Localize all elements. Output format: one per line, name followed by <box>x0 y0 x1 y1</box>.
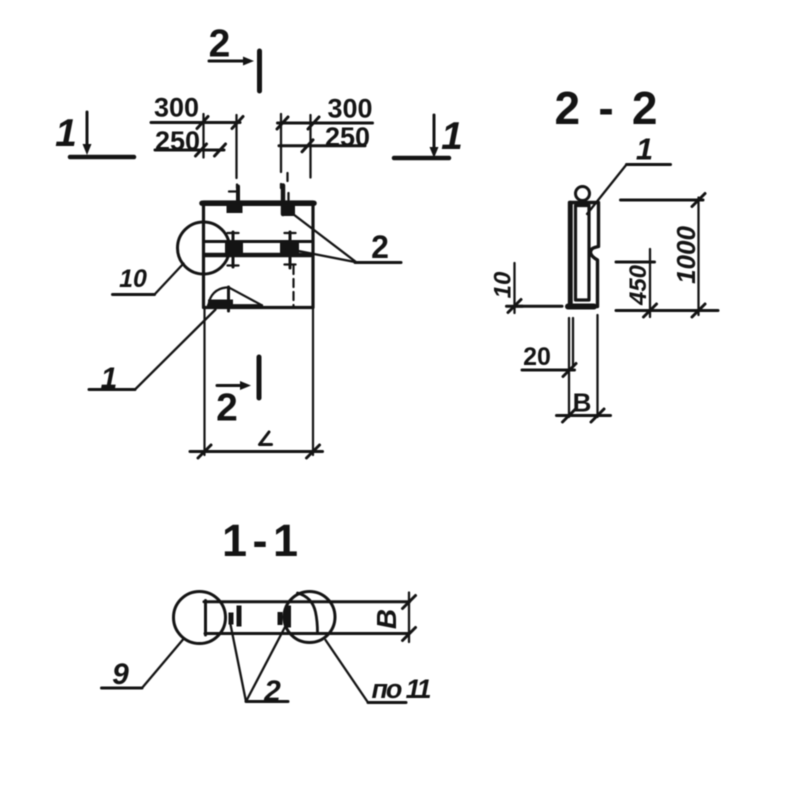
svg-text:1: 1 <box>101 362 118 395</box>
svg-text:10: 10 <box>119 265 147 293</box>
svg-text:1: 1 <box>441 115 463 158</box>
svg-text:2: 2 <box>216 387 238 430</box>
svg-text:9: 9 <box>112 658 129 691</box>
svg-text:2: 2 <box>209 23 231 66</box>
svg-text:1 - 1: 1 - 1 <box>222 515 298 566</box>
svg-text:по 11: по 11 <box>372 674 432 704</box>
svg-text:2: 2 <box>371 229 389 265</box>
svg-text:300: 300 <box>327 94 372 124</box>
svg-text:2: 2 <box>263 675 281 708</box>
svg-text:20: 20 <box>523 343 551 371</box>
svg-text:10: 10 <box>490 271 517 298</box>
svg-text:250: 250 <box>155 126 200 156</box>
svg-text:В: В <box>371 609 402 629</box>
svg-text:450: 450 <box>625 264 652 306</box>
svg-text:1: 1 <box>636 132 653 167</box>
svg-text:1: 1 <box>55 112 77 155</box>
svg-text:1000: 1000 <box>671 226 701 284</box>
svg-text:2 - 2: 2 - 2 <box>555 82 658 134</box>
svg-text:250: 250 <box>325 122 370 152</box>
svg-text:В: В <box>573 388 592 418</box>
svg-text:300: 300 <box>154 93 199 123</box>
